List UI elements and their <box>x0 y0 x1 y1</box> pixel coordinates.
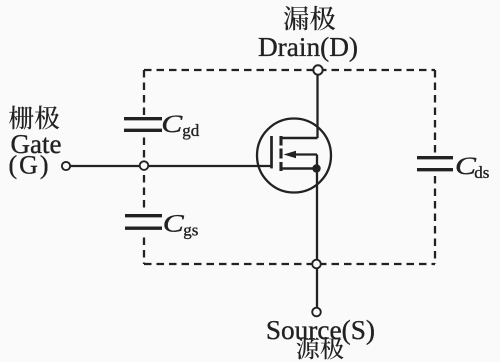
MOSFET Q1: source connection stub <box>281 167 317 170</box>
svg-text:Source(S): Source(S) <box>266 315 375 345</box>
capacitor C_gs plates <box>125 216 162 229</box>
node: source crossing open circle on box bottom <box>312 260 321 269</box>
capacitor C_gd plates <box>124 119 162 131</box>
MOSFET Q1: body arrow head <box>284 151 297 158</box>
capacitor C_ds plates <box>417 158 453 170</box>
svg-text:gs: gs <box>183 220 198 239</box>
svg-text:C: C <box>163 211 184 238</box>
svg-text:gd: gd <box>182 121 200 140</box>
node: source terminal open circle <box>312 308 321 317</box>
label 源极 (source, Chinese) <box>296 337 343 360</box>
label 漏极 (drain, Chinese) <box>284 6 335 31</box>
junction dot: body tied to source <box>312 164 320 172</box>
label 栅极 (gate, Chinese) <box>9 105 59 129</box>
svg-text:(G): (G) <box>8 151 50 180</box>
node: gate terminal (G) open circle <box>62 162 70 170</box>
svg-text:Drain(D): Drain(D) <box>258 32 358 62</box>
svg-text:C: C <box>161 111 182 138</box>
dashed box (device package outline) <box>144 70 435 264</box>
wire: drain lead from top terminal down into MOSFET <box>316 70 318 138</box>
MOSFET Q1: channel segments (dashed body bar) <box>279 136 282 171</box>
svg-text:ds: ds <box>474 163 489 182</box>
node: junction open circle on box left edge <box>140 161 149 170</box>
MOSFET Q1: body-source tie vertical <box>316 155 318 169</box>
wire: source lead from MOSFET down to source terminal <box>316 169 318 313</box>
MOSFET Q1: drain connection stub <box>281 137 318 140</box>
wire: gate lead from (G) terminal to MOSFET gate <box>71 165 272 167</box>
MOSFET Q1: gate electrode bar <box>270 136 273 168</box>
MOSFET Q1: body arrow shaft <box>294 153 317 155</box>
svg-text:C: C <box>455 153 476 180</box>
node: drain terminal open circle on box top <box>313 65 322 74</box>
MOSFET Q1: envelope circle <box>257 119 331 193</box>
